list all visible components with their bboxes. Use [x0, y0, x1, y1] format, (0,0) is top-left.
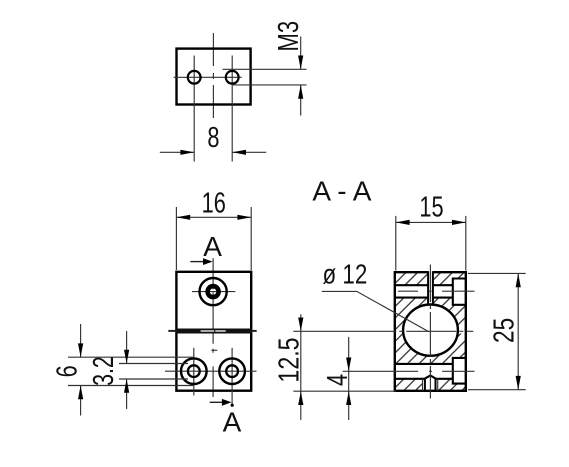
- front view: slit white gap dashes: [201, 330, 215, 331]
- svg-text:16: 16: [202, 188, 226, 220]
- section view: bore circle: [403, 305, 458, 356]
- dimension M3: dimension line with outside arrows: [300, 37, 302, 70]
- dimension 6: dimension line with outside arrows: [80, 324, 82, 357]
- top view: vertical centerline: [212, 33, 214, 122]
- section view: slit right line: [432, 271, 434, 305]
- top view: left M3 hole vertical centerline / extension line for dim 8: [193, 56, 195, 162]
- svg-text:15: 15: [419, 192, 443, 224]
- svg-text:A: A: [223, 406, 242, 437]
- svg-text:ø 12: ø 12: [323, 259, 368, 290]
- section view: bottom screw hole lower wall with drill dome: [395, 376, 453, 379]
- section view: clamp screw hole lower wall: [395, 297, 428, 299]
- svg-text:6: 6: [52, 365, 84, 377]
- front view: right bottom hole bore: [226, 365, 238, 377]
- dimension 15: extension lines: [396, 192, 466, 271]
- section view: bottom hole centerline / extension line for 4: [343, 370, 475, 372]
- dimension 16: dimension line with inside arrows: [176, 216, 251, 218]
- section view: clamp screw hole white band: [393, 286, 453, 297]
- svg-text:8: 8: [207, 122, 219, 154]
- front view: clamp screw M3 thread ring: [208, 286, 219, 297]
- section view: slit white gap: [428, 270, 433, 306]
- dimension 6: extension lines tangent to left counterbore: [52, 324, 194, 416]
- dimension 16: extension lines: [176, 188, 251, 270]
- dimension 12.5: extension line bottom: [272, 314, 396, 420]
- front view: left bottom hole vertical centerline: [193, 348, 195, 396]
- section arrow A top: [190, 231, 222, 265]
- front view: clamp screw hole horizontal centerline: [192, 291, 235, 293]
- svg-text:25: 25: [487, 318, 520, 343]
- dimension 3.2: dimension line with outside arrows: [126, 331, 128, 364]
- dimension 12.5: dimension line with outside arrows: [300, 314, 302, 420]
- section view: bottom counterbore box: [453, 358, 466, 384]
- svg-text:4: 4: [322, 374, 354, 386]
- svg-text:M3: M3: [273, 21, 305, 52]
- front view: slit (saw cut) right extension: [251, 330, 257, 332]
- front view: bottom holes horizontal centerline: [165, 370, 257, 372]
- dimension 3.2: extension lines tangent to left hole bore: [88, 331, 188, 409]
- dimension 15: dimension line with inside arrows: [396, 221, 466, 223]
- top view: right M3 hole vertical centerline / extension line for dim 8: [231, 56, 233, 162]
- top view: right M3 hole: [226, 71, 239, 84]
- front view: centerline dash mark: [211, 349, 217, 351]
- section view: clamp screw counterbore box: [453, 279, 466, 305]
- section view: body outline: [395, 272, 466, 391]
- dimension ø 12: leader line: [322, 259, 429, 331]
- svg-text:A: A: [203, 231, 222, 262]
- front view: body outline: [176, 272, 251, 391]
- section view: bottom screw hole upper wall: [395, 363, 453, 365]
- section view: clamp screw counterbore white box: [453, 279, 466, 305]
- top view: left M3 hole: [188, 71, 201, 84]
- top view: horizontal centerline through holes: [174, 76, 242, 78]
- section view: M3 pocket thread lines: [422, 379, 424, 391]
- front view: left bottom hole bore: [188, 365, 200, 377]
- dimension 25: extension lines: [468, 273, 526, 389]
- front view: left bottom hole counterbore: [181, 358, 207, 384]
- dimension M3: extension lines tangent to right hole: [223, 21, 307, 116]
- svg-text:12.5: 12.5: [272, 337, 305, 382]
- dimension 8: dimension line with outside arrows: [160, 122, 266, 155]
- front view: slit (saw cut) left extension: [168, 330, 176, 332]
- front view: right bottom hole counterbore: [219, 358, 245, 384]
- section view: vertical centerline: [429, 265, 431, 399]
- svg-text:A - A: A - A: [312, 175, 371, 206]
- section view: bottom screw hole white band: [393, 365, 453, 378]
- front view: slit (saw cut) dark band: [176, 329, 251, 334]
- section view: hatch gap right of bore: [457, 329, 466, 333]
- svg-text:3.2: 3.2: [88, 356, 120, 385]
- dimension 25: dimension line with inside arrows: [517, 273, 519, 389]
- section view: bottom counterbore white box: [453, 358, 466, 384]
- section view: bore white circle: [402, 304, 459, 357]
- section view: M3 pocket white: [423, 375, 438, 391]
- dimension 4: dimension line with outside arrows: [322, 337, 354, 420]
- section view: clamp screw hole upper wall: [395, 284, 428, 286]
- top view: body outline: [177, 49, 251, 105]
- section view: bore horizontal centerline / extension line for 12.5: [293, 330, 473, 332]
- section arrow A bottom: [210, 399, 242, 438]
- front view: clamp screw counterbore circle: [200, 278, 227, 305]
- front view: right bottom hole vertical centerline: [231, 348, 233, 405]
- section view: clamp screw hole centerline: [398, 290, 475, 292]
- section view: slit left line: [427, 271, 429, 305]
- section view: hatched body: [395, 272, 466, 391]
- front view: vertical centerline (section cut line): [212, 258, 214, 397]
